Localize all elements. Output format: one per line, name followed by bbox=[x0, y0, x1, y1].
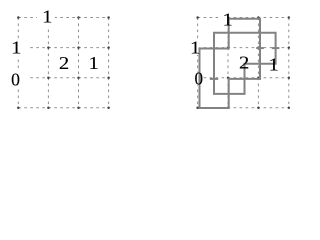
wire: right grid v-line 0 bbox=[197, 18, 199, 108]
wire: right grid v-line 2 bbox=[257, 18, 259, 108]
wire: left grid v-line 0 bbox=[17, 18, 19, 108]
wire: right grid h-line 3 bbox=[198, 107, 289, 109]
svg-text:1: 1 bbox=[11, 39, 21, 58]
loop L2: dual-lattice loop through cell centres bbox=[214, 33, 276, 94]
svg-text:1: 1 bbox=[223, 10, 233, 29]
label patch: right grid top edge label bbox=[218, 12, 229, 25]
crossing tick: L1 vertical x dashed h-line 1 bbox=[256, 47, 264, 49]
wire: left grid h-line 3 bbox=[18, 107, 108, 109]
left grid dashed lines bbox=[18, 18, 108, 108]
node dots: left grid lattice points bbox=[17, 16, 110, 109]
svg-text:1: 1 bbox=[42, 8, 52, 27]
loop L1: primal-lattice loop (S-shaped closed curve) bbox=[200, 19, 261, 108]
crossing tick: L2 vertical x dashed h-line 1 bbox=[272, 47, 280, 49]
wire: left grid h-line 2 bbox=[18, 77, 108, 79]
crossing tick: L2 vertical x dashed h-line 2 bbox=[210, 78, 218, 80]
wire: left grid v-line 3 bbox=[108, 18, 110, 108]
node dots: right grid lattice points bbox=[196, 16, 290, 109]
wire: right grid v-line 3 bbox=[288, 18, 290, 108]
wire: left grid h-line 1 bbox=[18, 47, 108, 49]
svg-text:1: 1 bbox=[89, 54, 99, 73]
label patch: left grid left edge label 1 bbox=[11, 40, 27, 56]
wire: left grid v-line 2 bbox=[78, 18, 80, 108]
label patch: left grid left edge label 0 bbox=[11, 68, 27, 87]
wire: right grid h-line 0 bbox=[198, 17, 289, 19]
svg-text:0: 0 bbox=[195, 68, 204, 89]
wire: right grid h-line 1 bbox=[198, 47, 289, 49]
svg-text:2: 2 bbox=[59, 54, 69, 73]
wire: right grid h-line 2 bbox=[198, 77, 289, 79]
svg-text:1: 1 bbox=[269, 56, 279, 75]
wire: right grid v-line 1 bbox=[227, 18, 229, 108]
label patch: right grid left edge label 0 bbox=[194, 73, 203, 86]
wire: left grid h-line 0 bbox=[18, 17, 108, 19]
svg-text:2: 2 bbox=[239, 54, 249, 73]
label patch: left grid top edge label bbox=[37, 8, 55, 26]
svg-text:1: 1 bbox=[190, 39, 200, 58]
wire: left grid v-line 1 bbox=[47, 18, 49, 108]
right grid dashed lines bbox=[198, 18, 289, 108]
svg-text:0: 0 bbox=[11, 70, 20, 90]
label patch: right grid left edge label 1 bbox=[189, 41, 200, 56]
